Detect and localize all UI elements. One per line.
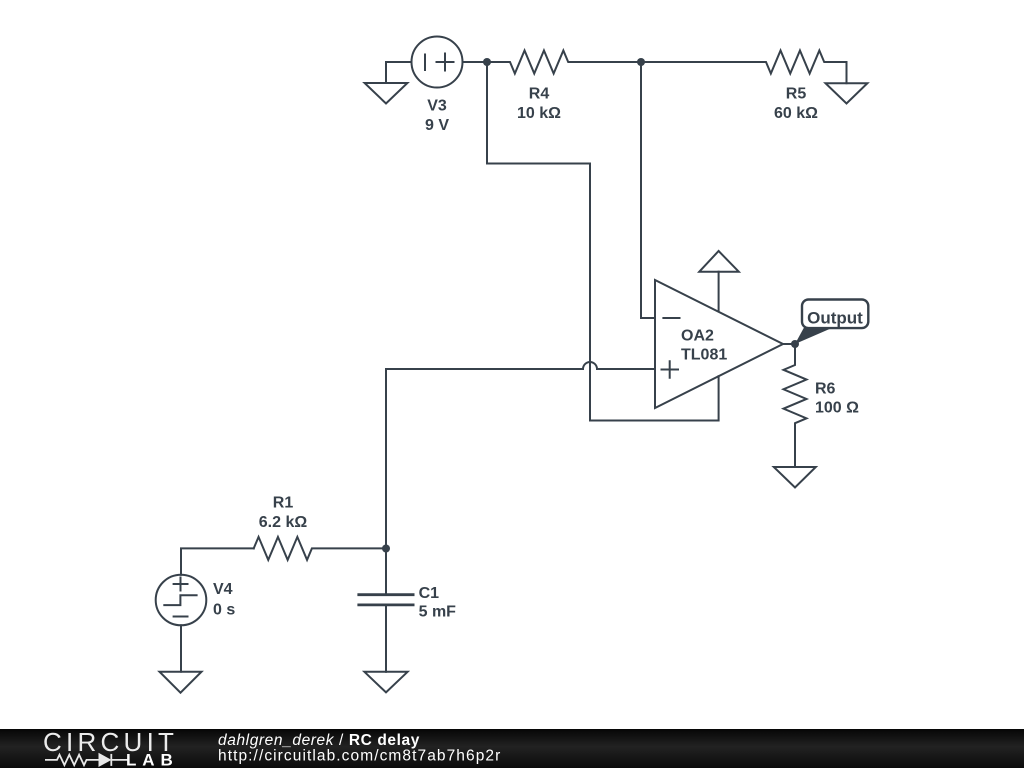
- resistor R4: [487, 51, 641, 74]
- node A (junction V3/R4/feedback): [483, 58, 491, 66]
- op-amp negative supply pin wire: [590, 376, 719, 420]
- ground GND1 (left of V3): [365, 62, 412, 104]
- node B (junction R4/R5/inverting input): [637, 58, 645, 66]
- svg-text:0 s: 0 s: [213, 602, 235, 619]
- resistor R6: [784, 344, 807, 467]
- resistor R5: [641, 51, 847, 74]
- svg-text:V3: V3: [427, 97, 447, 114]
- svg-text:dahlgren_derek / RC delay: dahlgren_derek / RC delay: [218, 732, 420, 749]
- svg-text:R6: R6: [815, 381, 836, 398]
- svg-text:R4: R4: [529, 85, 550, 102]
- capacitor C1: [359, 549, 413, 672]
- node C (output node): [791, 340, 799, 348]
- CircuitLab logo: resistor-diode glyph: [45, 754, 128, 766]
- svg-text:C1: C1: [419, 585, 440, 602]
- wire node A down and across to x=590: [487, 62, 590, 164]
- voltage source V3: [412, 37, 463, 88]
- footer bar: [0, 729, 1024, 768]
- svg-text:http://circuitlab.com/cm8t7ab7: http://circuitlab.com/cm8t7ab7h6p2r: [218, 748, 501, 765]
- node D (R1/C1 junction): [382, 545, 390, 553]
- svg-text:100 Ω: 100 Ω: [815, 400, 859, 417]
- output flag pointer: [795, 328, 833, 345]
- ground GND3 (below R6): [774, 467, 816, 488]
- svg-text:OA2: OA2: [681, 328, 714, 345]
- svg-text:R5: R5: [786, 85, 807, 102]
- op-amp positive supply arrow: [699, 251, 739, 311]
- voltage source V4: [156, 575, 207, 626]
- op-amp OA2 triangle: [655, 280, 783, 408]
- svg-text:5 mF: 5 mF: [419, 604, 457, 621]
- op-amp minus symbol: [663, 317, 679, 319]
- svg-text:Output: Output: [807, 309, 863, 328]
- wire node B down to inverting input: [641, 62, 655, 318]
- svg-text:TL081: TL081: [681, 346, 727, 363]
- svg-text:LAB: LAB: [126, 751, 179, 768]
- wire V3 to node A: [463, 61, 488, 63]
- ground GND5 (below C1): [364, 672, 407, 693]
- svg-text:9 V: 9 V: [425, 117, 449, 134]
- wire op-amp output to node C: [783, 343, 795, 345]
- ground GND4 (below V4): [160, 672, 202, 693]
- svg-text:V4: V4: [213, 581, 233, 598]
- svg-text:60 kΩ: 60 kΩ: [774, 105, 818, 122]
- wire V4 bottom to ground: [180, 625, 182, 671]
- svg-text:6.2 kΩ: 6.2 kΩ: [259, 514, 308, 531]
- output label box: [802, 300, 868, 329]
- wire V4 top to R1: [181, 548, 254, 574]
- wire non-inverting input with hop over x=590: [386, 362, 655, 369]
- svg-text:R1: R1: [273, 495, 294, 512]
- wire capacitor node up to non-inverting input: [385, 369, 387, 549]
- op-amp plus symbol: [662, 361, 679, 377]
- resistor R1: [254, 537, 386, 560]
- ground GND2 (right of R5): [826, 62, 868, 104]
- wire x=590 down to negative-supply rail: [589, 164, 591, 421]
- svg-text:10 kΩ: 10 kΩ: [517, 105, 561, 122]
